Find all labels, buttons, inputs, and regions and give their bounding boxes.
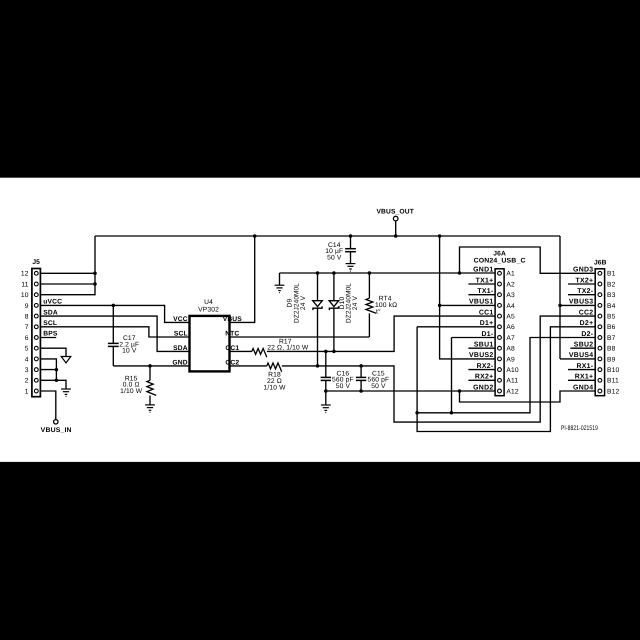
svg-text:GND1: GND1 [473, 267, 493, 274]
wire D10 bottom lead [333, 308, 335, 351]
junction RT4 top [368, 271, 372, 275]
svg-text:B12: B12 [607, 388, 619, 395]
resistor R17 [252, 349, 267, 358]
junction D9 bottom [316, 364, 320, 368]
junction D10 bottom [332, 350, 336, 354]
resistor R18 [267, 363, 282, 372]
svg-text:GND4: GND4 [573, 384, 593, 391]
J6A pin A1 circle [498, 271, 502, 275]
port VBUS_OUT [393, 216, 398, 221]
junction C16 top [324, 350, 328, 354]
wire SCL pin7 to U4 SCL [40, 327, 189, 337]
svg-text:VBUS2: VBUS2 [469, 352, 493, 359]
junction C15 top [359, 364, 363, 368]
J5 pin 7 circle [34, 325, 38, 329]
resistor R15 [147, 380, 156, 395]
svg-text:SCL: SCL [174, 330, 188, 337]
wire C17 upper lead [112, 305, 114, 343]
junction C16 bottom [324, 389, 328, 393]
wire VBUS top rail [95, 235, 560, 237]
svg-text:22 Ω, 1/10 W: 22 Ω, 1/10 W [267, 344, 309, 351]
svg-text:A11: A11 [506, 378, 518, 385]
wire C14 bottom lead [350, 252, 352, 264]
wire RT4 bottom lead [368, 313, 370, 337]
svg-text:1/10 W: 1/10 W [263, 384, 286, 391]
J6B pin B9 circle [598, 357, 602, 361]
wire VBUS riser right [559, 236, 561, 359]
svg-text:CON24_USB_C: CON24_USB_C [474, 258, 526, 265]
svg-text:11: 11 [21, 281, 28, 288]
wire TX2- stub B3 [568, 294, 595, 296]
junction VBUS3 [558, 304, 562, 308]
wire C16 bottom lead [325, 380, 327, 391]
wire U4 CC1 to R17 [230, 350, 252, 352]
svg-text:A4: A4 [506, 303, 515, 310]
wire CC2 bus to B5 [282, 316, 595, 422]
svg-text:VBUS_IN: VBUS_IN [41, 427, 72, 434]
svg-text:A8: A8 [506, 346, 515, 353]
wire J5 pin 12 to node [40, 272, 95, 274]
wire pin1 to VBUS_IN [40, 391, 56, 420]
junction VBUS_OUT [394, 234, 398, 238]
svg-text:B4: B4 [607, 303, 616, 310]
wire RT4 top lead [368, 273, 370, 298]
svg-text:6: 6 [25, 335, 29, 342]
svg-text:2: 2 [25, 378, 29, 385]
wire D1- riser [451, 338, 453, 413]
wire RX2- stub A10 [468, 369, 495, 371]
svg-text:VBUS3: VBUS3 [569, 299, 593, 306]
connector J6A box [495, 269, 504, 396]
svg-text:RX2+: RX2+ [475, 374, 494, 381]
svg-text:VP302: VP302 [198, 306, 219, 313]
wire C16 top lead [325, 351, 327, 377]
svg-text:D1-: D1- [481, 331, 493, 338]
svg-text:B5: B5 [607, 314, 616, 321]
svg-text:VBUS: VBUS [223, 316, 243, 323]
svg-text:10 V: 10 V [122, 348, 137, 355]
junction D10 top [332, 271, 336, 275]
ground C16 C15 [321, 405, 331, 413]
J5 pin 10 circle [34, 293, 38, 297]
svg-text:TX2+: TX2+ [576, 277, 594, 284]
svg-text:B9: B9 [607, 356, 616, 363]
junction pin12 bus [93, 272, 97, 276]
J6A pin A9 circle [498, 357, 502, 361]
J5 pin 11 circle [34, 282, 38, 286]
svg-text:A5: A5 [506, 314, 515, 321]
ground J5 pins 2-4 [61, 389, 71, 397]
J5 pin 12 circle [34, 271, 38, 275]
capacitor C14 [345, 249, 356, 252]
J6A pin A4 circle [498, 304, 502, 308]
svg-text:SCL: SCL [43, 320, 57, 327]
wire GND2 to GND4 link [460, 391, 596, 402]
svg-text:4: 4 [25, 356, 29, 363]
svg-text:VBUS4: VBUS4 [569, 352, 593, 359]
svg-text:50 V: 50 V [371, 383, 386, 390]
svg-text:12: 12 [21, 271, 29, 278]
svg-text:D1+: D1+ [480, 320, 494, 327]
junction C15 bottom [359, 389, 363, 393]
svg-text:5: 5 [25, 346, 29, 353]
J6B pin B3 circle [598, 293, 602, 297]
ground C14 [346, 264, 356, 272]
wire D+ bus [417, 327, 595, 432]
junction R15 top [148, 364, 152, 368]
svg-text:9: 9 [25, 303, 29, 310]
wire GND net to U4 [113, 365, 189, 367]
wire GND1 rail ground stem [279, 273, 281, 285]
junction pin2 [55, 379, 59, 383]
wire TX1- stub A3 [468, 294, 495, 296]
wire D- bus [417, 338, 595, 413]
J6A pin A12 circle [498, 389, 502, 393]
wire TX2+ stub B2 [568, 283, 595, 285]
wire C14 top lead [350, 236, 352, 249]
ground GND1 rail [275, 285, 285, 293]
wire C17 lower lead [112, 346, 114, 366]
diode D10 [329, 301, 339, 310]
junction pin3 [55, 368, 59, 372]
svg-text:B10: B10 [607, 367, 619, 374]
junction GND1 link [458, 271, 462, 275]
svg-text:A3: A3 [506, 292, 515, 299]
svg-text:A9: A9 [506, 356, 515, 363]
junction VBUS riser rail [438, 234, 442, 238]
J6A pin A5 circle [498, 314, 502, 318]
J6B pin B7 circle [598, 336, 602, 340]
connector J5 [32, 269, 41, 397]
junction C17 top [112, 304, 116, 308]
junction D9 top [316, 271, 320, 275]
svg-text:B11: B11 [607, 378, 619, 385]
wire VBUS1 A4 [440, 304, 496, 306]
svg-text:RX2-: RX2- [477, 363, 494, 370]
svg-text:CC1: CC1 [479, 309, 494, 316]
svg-text:t°: t° [376, 308, 381, 315]
J6B pin B1 circle [598, 271, 602, 275]
svg-text:PI-8821-021519: PI-8821-021519 [561, 425, 598, 432]
svg-text:VCC: VCC [173, 316, 188, 323]
wire VBUS_OUT stem [395, 221, 397, 236]
J5 pin 2 circle [34, 378, 38, 382]
junction U4 VBUS riser [253, 234, 257, 238]
wire RX1+ stub B11 [568, 379, 595, 381]
svg-text:A7: A7 [506, 335, 515, 342]
svg-text:A2: A2 [506, 281, 515, 288]
svg-text:B3: B3 [607, 292, 616, 299]
wire VBUS3 B4 [560, 304, 595, 306]
wire BPS stub pin6 [40, 337, 56, 339]
J5 pin 1 circle [34, 389, 38, 393]
svg-text:D2-: D2- [581, 331, 593, 338]
wire R15 lower lead [149, 396, 151, 405]
svg-text:B2: B2 [607, 281, 616, 288]
wire TX1+ stub A2 [468, 283, 495, 285]
svg-text:GND2: GND2 [473, 384, 493, 391]
J5 pin 8 circle [34, 314, 38, 318]
svg-text:50 V: 50 V [336, 383, 351, 390]
svg-text:B1: B1 [607, 271, 616, 278]
svg-text:50 V: 50 V [327, 254, 342, 261]
svg-text:7: 7 [25, 324, 29, 331]
signal ground triangle [61, 357, 71, 363]
wire U4 CC2 to R18 [230, 365, 267, 367]
svg-text:TX1-: TX1- [477, 288, 494, 295]
J5 pin 5 circle [34, 346, 38, 350]
svg-text:CC2: CC2 [579, 309, 594, 316]
svg-text:J6A: J6A [493, 250, 506, 257]
capacitor C17 [108, 343, 119, 346]
J6A pin A7 circle [498, 336, 502, 340]
port VBUS_IN [54, 420, 58, 424]
J6B pin B2 circle [598, 282, 602, 286]
svg-text:U4: U4 [204, 299, 213, 306]
svg-text:VBUS_OUT: VBUS_OUT [376, 208, 414, 215]
J6B pin B8 circle [598, 346, 602, 350]
J6B pin B11 circle [598, 378, 602, 382]
svg-text:D2+: D2+ [580, 320, 594, 327]
svg-text:RX1-: RX1- [576, 363, 593, 370]
J6B pin B6 circle [598, 325, 602, 329]
svg-text:24 V: 24 V [300, 295, 307, 310]
svg-text:A12: A12 [506, 388, 518, 395]
J5 pin 9 circle [34, 304, 38, 308]
wire D1- A7 [452, 337, 496, 339]
J6B pin B5 circle [598, 314, 602, 318]
wire J5 pin 10 to VBUS rail riser [40, 236, 95, 295]
wire R15 upper lead [149, 366, 151, 380]
wire SBU2 stub B8 [570, 347, 595, 349]
svg-text:1: 1 [25, 388, 29, 395]
wire uVCC pin9 to U4 VCC [40, 305, 189, 322]
svg-text:SBU2: SBU2 [574, 342, 594, 349]
J6A pin A3 circle [498, 293, 502, 297]
wire GND1 rail [280, 272, 496, 274]
J6B pin B12 circle [598, 389, 602, 393]
svg-text:BPS: BPS [43, 331, 58, 338]
wire C15 top lead [360, 366, 362, 378]
junction D1+ bus [415, 411, 419, 415]
J5 pin 3 circle [34, 368, 38, 372]
J5 pin 4 circle [34, 357, 38, 361]
wire VBUS4 B9 [560, 358, 595, 360]
junction D1- bus [450, 411, 454, 415]
wire U4 NTC to RT4 [230, 336, 370, 338]
junction C14 top [349, 234, 353, 238]
J6B pin B4 circle [598, 304, 602, 308]
junction VBUS1 [438, 304, 442, 308]
svg-text:A6: A6 [506, 324, 515, 331]
capacitor C15 [356, 377, 366, 380]
wire GND1 to GND3 link [460, 247, 596, 273]
svg-text:A10: A10 [506, 367, 518, 374]
wire GND rail ground stem [325, 391, 327, 405]
thermistor RT4 [366, 298, 376, 313]
wire GND2 rail [326, 390, 495, 392]
J6A pin A11 circle [498, 378, 502, 382]
svg-text:24 V: 24 V [352, 295, 359, 310]
capacitor C16 [321, 377, 331, 380]
svg-text:SDA: SDA [173, 345, 188, 352]
svg-text:B7: B7 [607, 335, 616, 342]
svg-text:SDA: SDA [43, 309, 58, 316]
svg-text:1/10 W: 1/10 W [120, 388, 143, 395]
diode D9 [313, 301, 323, 310]
wire pin5 to signal ground [40, 348, 66, 356]
svg-text:SBU1: SBU1 [474, 342, 494, 349]
svg-text:TX1+: TX1+ [476, 277, 494, 284]
wire pin3 [40, 369, 56, 371]
J6A pin A6 circle [498, 325, 502, 329]
svg-text:A1: A1 [506, 271, 515, 278]
J6A pin A2 circle [498, 282, 502, 286]
wire SBU1 stub A8 [468, 347, 495, 349]
svg-text:GND3: GND3 [573, 267, 593, 274]
wire RX2+ stub A11 [468, 379, 495, 381]
wire C15 bottom lead [360, 380, 362, 391]
wire D9 bottom lead [317, 308, 319, 366]
svg-text:B6: B6 [607, 324, 616, 331]
junction GND2 link [458, 389, 462, 393]
junction pin11 bus [93, 282, 97, 286]
wire pin4 down [40, 359, 56, 380]
wire D10 top lead [333, 273, 335, 301]
svg-text:10: 10 [21, 292, 29, 299]
wire RX1- stub B10 [568, 369, 595, 371]
op-amp U4 VP302 body [190, 316, 230, 372]
svg-text:J6B: J6B [594, 259, 607, 266]
J5 pin 6 circle [34, 336, 38, 340]
ground R15 [145, 405, 155, 413]
wire pin2 to ground [40, 380, 66, 388]
wire U4 VBUS pin riser [230, 236, 255, 322]
connector J6B box [595, 269, 604, 396]
svg-text:VBUS1: VBUS1 [469, 299, 493, 306]
wire D9 top lead [317, 273, 319, 301]
J6A pin A8 circle [498, 346, 502, 350]
J6A pin A10 circle [498, 368, 502, 372]
wire J5 pin 11 to node [40, 283, 95, 285]
svg-text:RX1+: RX1+ [575, 374, 594, 381]
wire VBUS riser A-side [440, 236, 496, 359]
svg-text:J5: J5 [32, 259, 40, 266]
svg-text:TX2-: TX2- [577, 288, 594, 295]
wire D1+ A6 [417, 326, 495, 328]
wire SDA pin8 to U4 SDA [40, 316, 189, 351]
J6B pin B10 circle [598, 368, 602, 372]
svg-text:uVCC: uVCC [43, 299, 62, 306]
svg-text:3: 3 [25, 367, 29, 374]
wire CC1 to A5 [267, 316, 495, 351]
svg-text:8: 8 [25, 314, 29, 321]
svg-text:B8: B8 [607, 346, 616, 353]
